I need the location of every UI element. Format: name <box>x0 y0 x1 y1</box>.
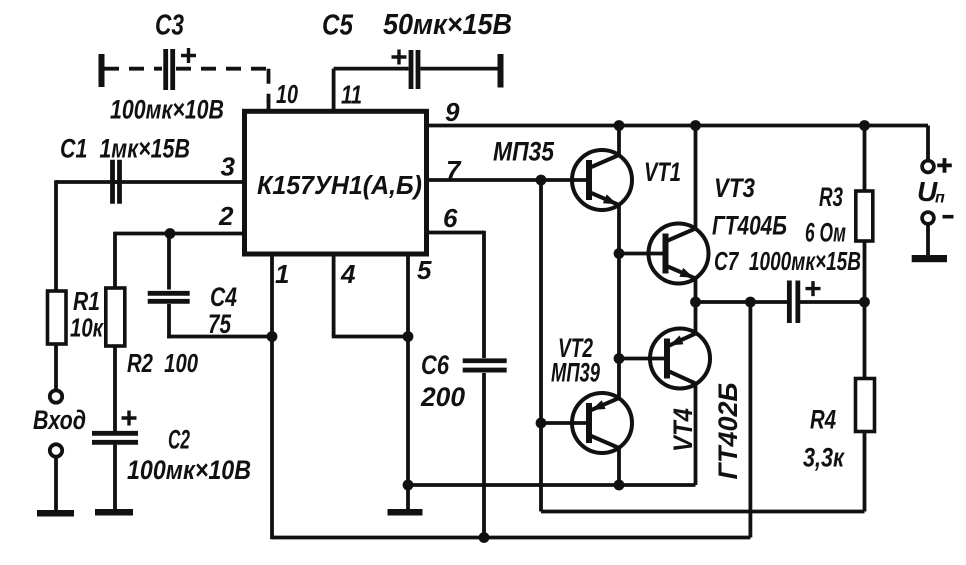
svg-text:п: п <box>935 190 945 207</box>
wire C7 to R3/R4 <box>800 300 865 304</box>
transistor VT1 MP35 <box>572 150 632 210</box>
svg-text:C1 1мк×15В: C1 1мк×15В <box>60 134 190 164</box>
wire down to R1 <box>54 180 58 291</box>
terminal bar (C5 right) <box>498 54 504 88</box>
wire pin 4 to pin 5 <box>332 335 408 339</box>
junction bus/R3 <box>859 120 870 131</box>
svg-text:100мк×10В: 100мк×10В <box>110 95 224 125</box>
svg-text:R1: R1 <box>73 286 100 316</box>
pin 11 wire <box>332 69 336 111</box>
wire pin 6 <box>429 231 484 235</box>
svg-text:МП39: МП39 <box>551 358 600 388</box>
ground (C2) <box>95 509 133 516</box>
junction R3/R4/C7 <box>859 297 870 308</box>
capacitor C4 <box>148 293 190 301</box>
wire VT4 collector down <box>694 384 698 486</box>
svg-text:VT3: VT3 <box>714 173 755 203</box>
wire pin 4 down <box>332 254 336 337</box>
svg-text:5: 5 <box>417 255 432 285</box>
svg-text:C2: C2 <box>168 425 190 455</box>
wire VT3 collector <box>694 126 698 229</box>
wire C4 down <box>167 304 171 338</box>
terminal bar (C3 left, to other channel) <box>99 54 105 87</box>
svg-text:VT1: VT1 <box>644 157 681 187</box>
capacitor C7 <box>789 281 798 324</box>
wire C1 to R1 corner <box>56 180 121 184</box>
wire (dashed, down to pin 10) <box>267 69 271 103</box>
ground (-Un) <box>912 255 947 262</box>
minus mark Un <box>943 215 954 219</box>
svg-text:11: 11 <box>341 80 362 110</box>
junction output/bottom bus riser <box>745 297 756 308</box>
input terminal + <box>50 390 62 402</box>
ground (input) <box>37 510 74 517</box>
svg-text:C6: C6 <box>421 350 450 380</box>
transistor VT4 GT402B <box>650 329 710 389</box>
svg-text:50мк×15В: 50мк×15В <box>383 9 512 41</box>
junction pin5/ground line <box>403 480 414 491</box>
junction bus/VT3 collector <box>690 120 701 131</box>
wire (dashed, C3 left) <box>104 67 162 71</box>
svg-text:VT4: VT4 <box>668 408 698 452</box>
wire VT2 emitter up <box>617 254 621 399</box>
svg-text:ГТ404Б: ГТ404Б <box>712 211 787 241</box>
junction pin2/C4 <box>165 228 176 239</box>
capacitor C3 <box>166 49 173 90</box>
junction VT2 emitter/VT4 base <box>614 353 625 364</box>
wire VT1 emitter <box>617 205 621 254</box>
plus mark C2 <box>122 411 137 426</box>
plus mark C7 <box>806 281 821 296</box>
junction C4/pin1 <box>267 331 278 342</box>
transistor VT2 MP39 <box>572 393 632 453</box>
capacitor C1 <box>113 160 120 204</box>
wire VT1 collector <box>617 126 621 156</box>
wire R4 down <box>863 432 867 512</box>
wire C6 down to bottom bus <box>482 373 486 538</box>
svg-text:ГТ402Б: ГТ402Б <box>713 383 743 480</box>
wire riser output to bottom bus <box>749 302 753 538</box>
wire -Un to ground <box>926 224 930 257</box>
wire (C5 to terminal) <box>421 67 498 71</box>
svg-text:МП35: МП35 <box>493 137 555 167</box>
svg-text:1: 1 <box>275 259 289 289</box>
wire ground line <box>408 483 696 487</box>
svg-text:200: 200 <box>420 382 465 412</box>
wire pin2 node to C4 <box>167 234 171 290</box>
wire C2 to ground <box>113 445 117 509</box>
ground (main) <box>388 509 423 516</box>
wire pin 7 to VT1 base <box>429 178 589 182</box>
wire output to C7 <box>696 300 788 304</box>
wire pin 1 down to bottom bus <box>270 254 274 539</box>
wire pin 2 <box>115 232 242 236</box>
wire R1 to input terminal <box>54 344 58 391</box>
capacitor C5 <box>411 50 418 89</box>
wire feedback horizontal <box>541 510 865 514</box>
junction VT1 emitter/VT3 base <box>614 248 625 259</box>
input terminal - <box>50 444 62 456</box>
svg-text:К157УН1(А,Б): К157УН1(А,Б) <box>257 170 422 200</box>
resistor R1 <box>48 291 67 344</box>
svg-text:C7 1000мк×15В: C7 1000мк×15В <box>714 246 861 276</box>
wire VT3 emitter <box>694 279 698 303</box>
svg-text:C4: C4 <box>210 282 237 312</box>
capacitor C6 <box>463 361 507 370</box>
wire input gnd <box>54 457 58 511</box>
wire bus to R3 <box>863 126 867 192</box>
svg-text:Вход: Вход <box>33 405 86 435</box>
wire VT4 emitter up <box>694 302 698 334</box>
wire pin 3 to C1 <box>111 180 242 184</box>
plus mark Un <box>937 158 952 173</box>
wire (dashed, C3 right) <box>176 67 269 71</box>
svg-text:100мк×10В: 100мк×10В <box>127 455 251 485</box>
wire to +Un terminal <box>926 126 930 161</box>
resistor R2 <box>106 288 125 346</box>
output terminal +Un <box>922 161 934 173</box>
transistor VT3 GT404B <box>649 224 709 284</box>
wire pin 6 down to C6 <box>482 231 486 358</box>
wire to VT4 base <box>619 357 667 361</box>
output terminal -Un <box>922 212 934 224</box>
junction VT2 collector/ground line <box>614 480 625 491</box>
svg-text:R2 100: R2 100 <box>127 348 198 378</box>
wire (pin 11 to C5) <box>334 67 409 71</box>
op-amp IC U1 K157UN1 <box>245 111 427 254</box>
capacitor C2 <box>92 433 138 442</box>
plus mark C3 <box>181 48 196 63</box>
junction bus/VT1 collector <box>614 120 625 131</box>
svg-text:10к: 10к <box>70 313 104 343</box>
junction VT2 base/feedback line <box>536 418 547 429</box>
svg-text:3: 3 <box>221 152 236 182</box>
svg-text:6 Ом: 6 Ом <box>805 218 846 248</box>
resistor R4 <box>856 379 875 432</box>
resistor R3 <box>856 191 873 241</box>
wire R3 to output node <box>863 241 867 302</box>
junction pin7/feedback <box>536 175 547 186</box>
wire to VT3 base <box>619 252 666 256</box>
wire output node to R4 <box>863 302 867 379</box>
svg-text:9: 9 <box>445 97 460 127</box>
pin 10 stub <box>267 99 271 111</box>
svg-text:6: 6 <box>443 203 458 233</box>
svg-text:C5: C5 <box>322 10 354 42</box>
plus mark C5 <box>392 50 407 65</box>
svg-text:2: 2 <box>218 201 234 231</box>
svg-text:C3: C3 <box>155 10 184 42</box>
svg-text:75: 75 <box>208 309 232 339</box>
wire feedback vertical <box>539 180 543 512</box>
svg-text:R3: R3 <box>819 182 843 212</box>
wire R2 to C2 <box>113 346 117 431</box>
wire pin 5 down to ground <box>406 254 410 509</box>
wire VT2 collector down <box>617 448 621 485</box>
wire down to R2 <box>113 232 117 288</box>
svg-text:10: 10 <box>276 79 298 109</box>
wire VT2 base <box>541 421 589 425</box>
wire bottom bus <box>272 536 750 540</box>
svg-text:4: 4 <box>340 259 356 289</box>
wire C4 to pin1 line <box>167 335 272 339</box>
junction C6/bottom bus <box>479 532 490 543</box>
wire pin 9 supply bus <box>429 124 928 128</box>
svg-text:R4: R4 <box>810 405 836 435</box>
junction VT3 emitter/VT4 emitter/output <box>690 297 701 308</box>
svg-text:3,3к: 3,3к <box>803 443 845 473</box>
junction pin4/pin5 <box>403 331 414 342</box>
